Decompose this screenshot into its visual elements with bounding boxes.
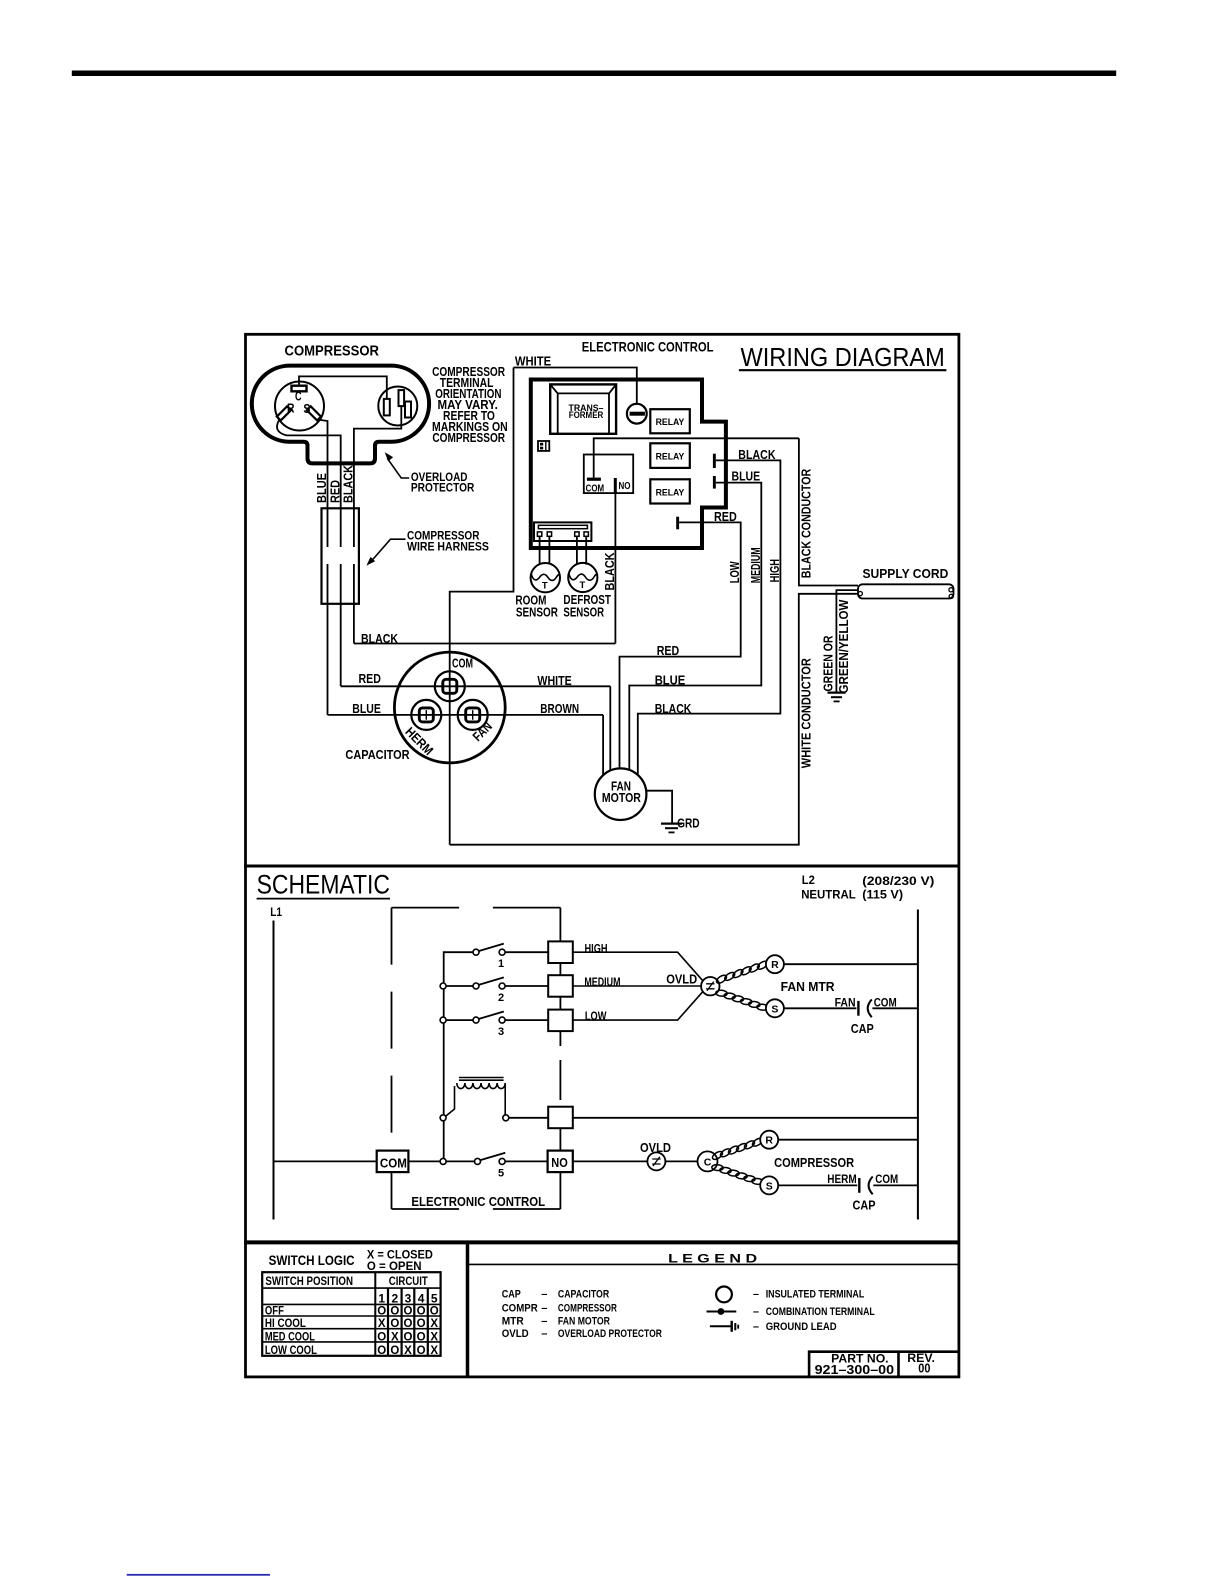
svg-text:OVLD: OVLD <box>502 1328 529 1340</box>
wire L2 rail <box>917 910 919 1220</box>
fan motor <box>595 768 647 820</box>
svg-text:(208/230 V): (208/230 V) <box>862 874 934 888</box>
svg-text:NO: NO <box>551 1155 568 1170</box>
svg-text:–: – <box>541 1289 547 1301</box>
switch 1 <box>473 944 548 970</box>
svg-text:RED: RED <box>714 509 737 524</box>
svg-text:SENSOR: SENSOR <box>516 605 558 620</box>
svg-text:OVLD: OVLD <box>666 973 697 987</box>
svg-text:BLACK: BLACK <box>361 631 398 646</box>
svg-text:O = OPEN: O = OPEN <box>367 1259 422 1273</box>
callout OVERLOAD PROTECTOR <box>385 452 475 494</box>
wire coil to box 4 <box>509 1117 549 1119</box>
svg-text:S: S <box>771 1003 778 1015</box>
wire from R down <box>277 419 341 547</box>
relay contact box 4 <box>548 1107 573 1129</box>
switch logic table grid <box>262 1272 440 1356</box>
svg-text:RELAY: RELAY <box>656 487 685 498</box>
svg-text:S: S <box>303 401 310 416</box>
svg-text:RED: RED <box>657 643 680 658</box>
switch 3 <box>440 1012 548 1038</box>
wire compressor R to L2 <box>778 1139 918 1141</box>
wire BLUE contact to fan (MEDIUM) <box>629 483 761 770</box>
switch 5 <box>446 1153 548 1180</box>
svg-text:NO: NO <box>619 481 631 492</box>
svg-text:2: 2 <box>498 992 504 1004</box>
svg-text:GREEN OR: GREEN OR <box>820 635 835 691</box>
wire NO to OVLD <box>573 1160 647 1162</box>
junction (coil right) <box>503 1115 509 1121</box>
terminal R <box>277 400 295 420</box>
part number box <box>809 1351 958 1377</box>
svg-text:S: S <box>766 1180 773 1192</box>
svg-text:SENSOR: SENSOR <box>563 605 604 620</box>
junction (bus/row5) <box>440 1158 446 1164</box>
svg-text:BLUE: BLUE <box>732 468 761 483</box>
sensor terminal block <box>534 522 591 541</box>
wire BROWN FAN terminal to fan motor <box>602 715 604 776</box>
svg-text:4: 4 <box>418 1291 425 1305</box>
svg-text:BLACK: BLACK <box>655 701 692 716</box>
svg-text:O: O <box>404 1305 413 1317</box>
terminal COM box <box>377 1151 409 1173</box>
svg-text:O: O <box>417 1332 426 1344</box>
terminal S (compressor) <box>760 1176 778 1194</box>
terminal R (compressor) <box>760 1131 778 1149</box>
junction (coil left) <box>440 1115 446 1121</box>
svg-text:BLACK CONDUCTOR: BLACK CONDUCTOR <box>799 468 814 578</box>
top rule <box>72 71 1116 77</box>
legend insulated terminal symbol <box>716 1287 864 1303</box>
transformer U1 <box>550 384 616 433</box>
wire COM to black conductor <box>594 438 799 477</box>
wire BLACK harness to NO <box>354 643 616 645</box>
svg-text:COMPR: COMPR <box>502 1303 538 1315</box>
legend abbreviations <box>502 1289 662 1340</box>
svg-text:ELECTRONIC CONTROL: ELECTRONIC CONTROL <box>582 339 714 355</box>
svg-text:X: X <box>404 1345 412 1357</box>
svg-text:T: T <box>542 580 548 591</box>
svg-text:LOW: LOW <box>727 561 742 584</box>
section divider wiring/schematic <box>244 865 959 868</box>
svg-text:CAP: CAP <box>853 1198 876 1212</box>
svg-text:COMBINATION TERMINAL: COMBINATION TERMINAL <box>766 1306 875 1318</box>
fan motor main winding coil <box>715 960 769 985</box>
svg-text:X: X <box>391 1332 399 1344</box>
svg-text:WIRE HARNESS: WIRE HARNESS <box>407 541 489 553</box>
legend ground lead symbol <box>710 1321 837 1333</box>
relay contact box 2 <box>548 975 573 997</box>
svg-text:HI COOL: HI COOL <box>265 1318 306 1330</box>
capacitor terminal COM <box>435 655 473 701</box>
svg-text:–: – <box>753 1306 759 1318</box>
svg-text:COM: COM <box>586 483 605 494</box>
wire compressor cap to L2 <box>873 1184 918 1186</box>
svg-text:R: R <box>771 959 779 971</box>
contact bar BLUE <box>713 476 716 489</box>
wire fan R to L2 <box>784 963 918 965</box>
svg-text:R: R <box>287 400 295 415</box>
title WIRING DIAGRAM <box>739 342 947 372</box>
wire from plug prongs down <box>354 406 401 547</box>
room sensor <box>515 563 560 620</box>
svg-text:–: – <box>541 1328 547 1340</box>
svg-text:HERM: HERM <box>827 1172 856 1186</box>
wire switch bus <box>444 952 474 1161</box>
electronic control box <box>531 380 726 549</box>
svg-text:PROTECTOR: PROTECTOR <box>411 483 475 495</box>
defrost sensor <box>563 563 611 620</box>
svg-text:O: O <box>390 1305 399 1317</box>
wire C to plug <box>299 376 387 399</box>
svg-text:BLACK: BLACK <box>341 464 356 503</box>
svg-text:LOW: LOW <box>585 1009 607 1023</box>
wire COM to junction <box>408 1160 440 1162</box>
wire WHITE to insulated terminal <box>514 368 637 404</box>
svg-text:C: C <box>295 389 302 404</box>
compressor terminal circle <box>275 382 324 431</box>
relay contact box 3 <box>548 1010 573 1032</box>
wire NO down (black) <box>614 493 616 643</box>
svg-text:5: 5 <box>498 1168 504 1180</box>
svg-text:COM: COM <box>452 655 473 670</box>
wire RED to COM <box>341 685 611 687</box>
svg-text:ELECTRONIC CONTROL: ELECTRONIC CONTROL <box>411 1194 545 1209</box>
black conductor wire <box>799 438 858 585</box>
svg-text:HIGH: HIGH <box>585 941 608 955</box>
table rows <box>265 1305 439 1357</box>
svg-text:1: 1 <box>378 1291 385 1305</box>
svg-text:L E G E N D: L E G E N D <box>668 1251 757 1265</box>
compressor capacitor CAP <box>827 1172 898 1212</box>
circuit column numbers <box>378 1291 438 1305</box>
terminal NO box <box>548 1151 573 1173</box>
svg-text:O: O <box>417 1345 426 1357</box>
svg-text:X: X <box>378 1318 386 1330</box>
wire OVLD to C <box>665 1160 697 1162</box>
svg-text:X: X <box>430 1345 438 1357</box>
fan motor aux winding coil <box>716 990 769 1011</box>
wire HIGH <box>573 952 703 981</box>
wire L1 to COM <box>274 1160 377 1162</box>
svg-text:COMPRESSOR: COMPRESSOR <box>558 1303 617 1315</box>
svg-text:MOTOR: MOTOR <box>602 791 641 805</box>
svg-text:O: O <box>377 1345 386 1357</box>
svg-text:921–300–00: 921–300–00 <box>815 1363 895 1377</box>
wire fan S to cap <box>784 1007 857 1009</box>
COM/NO terminal box <box>584 455 633 495</box>
title SCHEMATIC <box>257 870 390 900</box>
callout COMPRESSOR WIRE HARNESS <box>366 530 489 565</box>
compressor start winding coil <box>712 1164 764 1184</box>
svg-text:RELAY: RELAY <box>656 452 685 463</box>
terminal R (fan) <box>766 955 784 973</box>
supply cord <box>858 566 954 599</box>
svg-text:CAP: CAP <box>502 1289 521 1301</box>
connector icon <box>538 441 549 451</box>
legend combination terminal symbol <box>707 1306 875 1318</box>
svg-text:(115 V): (115 V) <box>862 888 903 902</box>
relay contact box 1 <box>548 941 573 963</box>
transformer coil (schematic) <box>446 1078 506 1117</box>
svg-text:T: T <box>579 580 585 591</box>
switch logic heading <box>269 1247 434 1272</box>
footer link underline <box>127 1574 270 1576</box>
svg-text:BLUE: BLUE <box>352 701 381 716</box>
svg-text:–: – <box>753 1321 759 1333</box>
wire MEDIUM <box>573 985 701 987</box>
wires block to sensors <box>540 536 587 564</box>
contact bar BLACK <box>713 454 716 468</box>
svg-text:FAN: FAN <box>835 996 856 1010</box>
outer border <box>246 334 959 1377</box>
svg-text:MTR: MTR <box>502 1315 524 1327</box>
wire compressor S to cap <box>778 1184 857 1186</box>
capacitor terminal HERM <box>402 700 441 758</box>
svg-text:CAP: CAP <box>851 1022 874 1036</box>
green/yellow ground wire <box>836 590 858 692</box>
svg-text:BLUE: BLUE <box>655 673 686 688</box>
svg-text:WHITE CONDUCTOR: WHITE CONDUCTOR <box>798 658 813 769</box>
svg-text:GREEN/YELLOW: GREEN/YELLOW <box>836 599 851 694</box>
svg-text:X: X <box>430 1318 438 1330</box>
svg-text:RELAY: RELAY <box>656 417 685 428</box>
svg-text:NEUTRAL: NEUTRAL <box>801 888 856 902</box>
svg-text:MEDIUM: MEDIUM <box>584 975 620 989</box>
svg-text:LOW COOL: LOW COOL <box>265 1345 317 1357</box>
harness wires lower segments <box>328 564 354 715</box>
svg-text:FAN MOTOR: FAN MOTOR <box>558 1315 610 1327</box>
svg-text:INSULATED TERMINAL: INSULATED TERMINAL <box>766 1289 865 1301</box>
compressor plug circle <box>378 387 417 426</box>
svg-text:GRD: GRD <box>677 816 700 831</box>
ground GRD <box>661 816 700 833</box>
svg-text:3: 3 <box>498 1026 504 1038</box>
svg-text:WIRING DIAGRAM: WIRING DIAGRAM <box>741 342 945 372</box>
capacitor can <box>394 652 505 763</box>
svg-text:OVERLOAD PROTECTOR: OVERLOAD PROTECTOR <box>558 1328 662 1340</box>
svg-text:SCHEMATIC: SCHEMATIC <box>257 870 390 900</box>
svg-text:COMPRESSOR: COMPRESSOR <box>285 344 380 360</box>
svg-text:O: O <box>390 1345 399 1357</box>
svg-text:SWITCH LOGIC: SWITCH LOGIC <box>269 1252 355 1268</box>
wire box 4 to L2 <box>573 1117 918 1119</box>
svg-text:BLACK: BLACK <box>738 447 776 462</box>
svg-text:O: O <box>404 1332 413 1344</box>
relay K3 <box>650 479 690 503</box>
svg-text:1: 1 <box>498 958 504 970</box>
legend heading <box>468 1251 959 1265</box>
svg-text:O: O <box>430 1305 439 1317</box>
svg-text:BLACK: BLACK <box>602 552 617 591</box>
svg-text:OVLD: OVLD <box>640 1141 671 1155</box>
compressor wire harness <box>322 508 359 604</box>
terminal S (fan) <box>766 999 784 1017</box>
plug prong left <box>384 399 390 416</box>
svg-text:2: 2 <box>391 1291 398 1305</box>
overload protector OVLD (compressor) <box>640 1141 671 1170</box>
svg-text:COMPRESSOR: COMPRESSOR <box>432 430 505 445</box>
svg-text:–: – <box>541 1315 547 1327</box>
svg-text:X: X <box>430 1332 438 1344</box>
table panel divider <box>466 1242 470 1377</box>
svg-text:MED COOL: MED COOL <box>265 1332 315 1344</box>
terminal C (compressor) <box>698 1151 718 1171</box>
svg-text:SWITCH POSITION: SWITCH POSITION <box>265 1274 353 1288</box>
svg-text:HIGH: HIGH <box>767 559 782 583</box>
wire fan motor to ground <box>646 791 672 823</box>
svg-text:O: O <box>390 1318 399 1330</box>
svg-text:–: – <box>753 1289 759 1301</box>
svg-text:BROWN: BROWN <box>540 701 579 716</box>
section divider schematic/tables <box>244 1240 959 1244</box>
svg-text:FAN MTR: FAN MTR <box>781 979 836 994</box>
svg-text:COM: COM <box>875 1172 898 1186</box>
svg-text:5: 5 <box>431 1291 438 1305</box>
svg-text:O: O <box>377 1305 386 1317</box>
svg-text:C: C <box>704 1157 712 1169</box>
insulated terminal (circle with bar) <box>627 404 647 424</box>
overload protector OVLD (fan) <box>666 973 719 996</box>
wire BLUE to HERM <box>328 714 604 716</box>
svg-text:–: – <box>541 1303 547 1315</box>
plug prong top <box>399 390 405 406</box>
svg-text:WHITE: WHITE <box>515 353 552 368</box>
svg-text:CAPACITOR: CAPACITOR <box>558 1289 609 1301</box>
ground symbol (supply) <box>828 693 846 702</box>
wire LOW <box>573 991 703 1020</box>
svg-text:RED: RED <box>359 671 381 686</box>
svg-text:GROUND LEAD: GROUND LEAD <box>766 1321 837 1333</box>
plug prong right <box>405 402 411 418</box>
svg-text:MEDIUM: MEDIUM <box>748 547 763 583</box>
svg-text:SUPPLY CORD: SUPPLY CORD <box>863 566 949 581</box>
compressor outline (overload protector shell) <box>252 366 429 464</box>
svg-text:L2: L2 <box>802 873 815 887</box>
svg-text:COMPRESSOR: COMPRESSOR <box>774 1155 855 1170</box>
white conductor wire <box>450 594 858 845</box>
terminal S <box>303 401 321 421</box>
svg-text:CAPACITOR: CAPACITOR <box>345 747 410 762</box>
svg-text:O: O <box>404 1318 413 1330</box>
svg-text:OFF: OFF <box>265 1305 284 1317</box>
wire fan cap to L2 <box>872 1007 918 1009</box>
relay K1 <box>650 409 690 433</box>
table header text <box>265 1274 428 1288</box>
svg-text:WHITE: WHITE <box>537 673 572 688</box>
svg-text:L1: L1 <box>270 905 282 919</box>
svg-text:FORMER: FORMER <box>569 410 604 420</box>
wire L1 rail <box>273 921 275 1220</box>
electronic control dashed boundary <box>392 908 561 1209</box>
svg-text:COM: COM <box>380 1156 407 1171</box>
svg-text:O: O <box>377 1332 386 1344</box>
svg-text:O: O <box>417 1318 426 1330</box>
capacitor terminal FAN <box>458 700 495 744</box>
svg-text:CIRCUIT: CIRCUIT <box>389 1274 429 1288</box>
wire WHITE COM to fan motor <box>609 686 611 771</box>
switch 2 <box>440 977 548 1003</box>
wire RED contact to fan (LOW) <box>620 522 741 768</box>
contact bar RED <box>676 517 679 530</box>
svg-text:00: 00 <box>918 1362 930 1376</box>
svg-text:O: O <box>417 1305 426 1317</box>
wire from S down <box>318 420 328 548</box>
svg-text:3: 3 <box>405 1291 412 1305</box>
compressor run winding coil <box>711 1137 764 1161</box>
wire BLACK contact to fan (HIGH) <box>638 460 781 775</box>
wire WHITE down to capacitor COM <box>450 368 514 845</box>
fan capacitor CAP <box>835 996 897 1036</box>
relay K2 <box>650 443 690 468</box>
note COMPRESSOR TERMINAL ORIENTATION <box>432 364 508 445</box>
node L2 / NEUTRAL <box>801 873 934 902</box>
terminal C <box>292 386 307 404</box>
svg-text:R: R <box>765 1135 773 1147</box>
